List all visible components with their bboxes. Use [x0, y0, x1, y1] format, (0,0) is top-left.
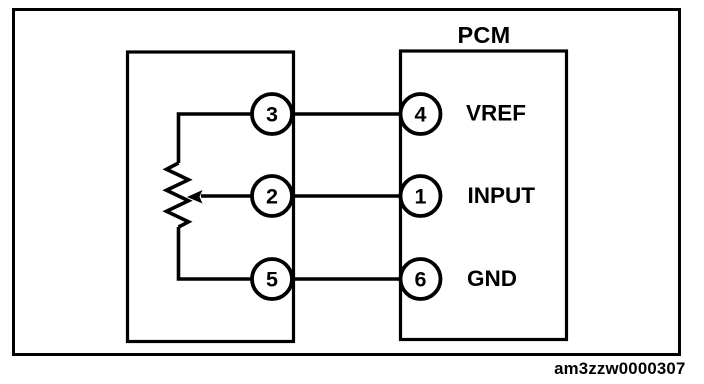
- wire INPUT (pin 2 to pin 1): [291, 194, 402, 198]
- svg-text:4: 4: [415, 103, 427, 127]
- svg-text:5: 5: [266, 268, 278, 292]
- pin 4: [401, 94, 441, 134]
- potentiometer resistor zigzag: [167, 163, 189, 227]
- pin 6: [401, 259, 441, 299]
- wire VREF (pin 3 to pin 4): [291, 112, 402, 116]
- svg-text:INPUT: INPUT: [468, 183, 536, 208]
- wire GND (pin 5 to pin 6): [291, 277, 402, 281]
- wiper wire from pin 2: [201, 194, 253, 198]
- pin 1: [401, 176, 441, 216]
- wire potentiometer bottom to pin 5: [179, 227, 254, 279]
- pin 2: [252, 176, 292, 216]
- sensor box: [128, 52, 294, 342]
- svg-text:3: 3: [266, 103, 278, 127]
- svg-text:2: 2: [266, 185, 278, 209]
- pin 3: [252, 94, 292, 134]
- PCM box U1: [401, 51, 567, 340]
- svg-text:1: 1: [415, 185, 427, 209]
- svg-text:PCM: PCM: [457, 22, 510, 48]
- pin 5: [252, 259, 292, 299]
- wire potentiometer top to pin 3: [179, 114, 254, 163]
- svg-text:am3zzw0000307: am3zzw0000307: [554, 359, 685, 378]
- svg-text:GND: GND: [467, 266, 517, 291]
- wiper arrowhead: [187, 190, 203, 204]
- svg-text:6: 6: [415, 268, 427, 292]
- svg-text:VREF: VREF: [466, 101, 526, 126]
